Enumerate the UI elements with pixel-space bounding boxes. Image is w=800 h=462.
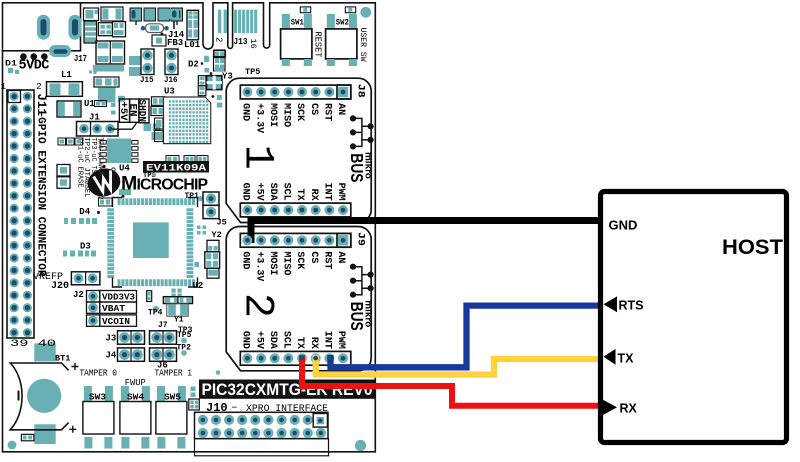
svg-text:TP5: TP5	[245, 67, 260, 77]
svg-text:AN: AN	[335, 103, 346, 115]
connector small left of Y3	[198, 76, 206, 86]
switch SW2 user	[345, 7, 355, 13]
small parts bottom left	[21, 434, 34, 441]
svg-text:J13: J13	[234, 37, 248, 47]
svg-text:16: 16	[248, 39, 258, 49]
svg-text:CS: CS	[308, 251, 319, 263]
battery holder BT1	[34, 343, 55, 361]
jumper J15	[141, 49, 154, 75]
svg-text:RX: RX	[620, 402, 638, 416]
mounting hole bottom right	[355, 440, 366, 451]
barrel jack connector J17	[3, 3, 81, 51]
wire RX (red)	[302, 355, 603, 406]
pin RX with arrow	[603, 400, 618, 416]
svg-text:SW2: SW2	[336, 18, 349, 27]
mounting hole top right	[360, 7, 371, 18]
header J9 top row	[240, 233, 350, 247]
svg-text:J3: J3	[106, 334, 117, 344]
header bottom row socket 1	[240, 203, 350, 217]
svg-text:PWM: PWM	[335, 331, 346, 349]
supply select VDD3V3 VBAT VCOIN	[87, 291, 100, 303]
svg-text:GND: GND	[609, 218, 638, 233]
svg-text:BUS: BUS	[347, 153, 367, 182]
svg-text:INT: INT	[322, 183, 333, 201]
svg-text:VDD3V3: VDD3V3	[102, 292, 135, 303]
svg-text:D3: D3	[80, 242, 91, 252]
svg-text:HOST: HOST	[722, 235, 783, 259]
HOST box	[601, 192, 787, 443]
oscillator	[146, 24, 164, 33]
svg-text:J8: J8	[355, 84, 366, 98]
power section components top	[84, 8, 99, 21]
connector J14	[166, 9, 179, 19]
5VDC marking	[20, 53, 27, 60]
board outline with routed slots	[3, 3, 376, 452]
inductor L01	[187, 10, 199, 40]
svg-text:2: 2	[234, 293, 282, 318]
svg-text:L01: L01	[184, 40, 201, 50]
svg-text:D4: D4	[79, 207, 90, 217]
svg-text:GND: GND	[240, 331, 251, 349]
pin TX with arrow	[604, 349, 616, 365]
svg-text:GND: GND	[240, 103, 251, 121]
switch SW3	[84, 386, 92, 402]
svg-text:PWM: PWM	[335, 183, 346, 201]
microcontroller U2 QFP	[107, 198, 195, 286]
svg-text:J15: J15	[140, 75, 154, 85]
svg-text:SCK: SCK	[294, 103, 305, 121]
svg-text:TX: TX	[294, 337, 305, 349]
svg-text:MISO: MISO	[281, 251, 292, 275]
svg-text:SCL: SCL	[281, 331, 292, 349]
svg-text:5VDC: 5VDC	[19, 58, 50, 73]
svg-text:J9: J9	[355, 232, 366, 246]
testpoints TP4 J7 Y1 TP3 cluster	[147, 291, 152, 302]
svg-text:J20: J20	[51, 281, 69, 292]
connector J11 GPIO extension	[7, 90, 34, 338]
svg-text:PIC32CXMTG-EK REV0: PIC32CXMTG-EK REV0	[202, 380, 373, 399]
mikroBUS logo socket 1	[353, 118, 371, 146]
svg-text:RX: RX	[308, 189, 319, 201]
svg-text:BT1: BT1	[55, 354, 70, 364]
small parts left of banner	[191, 387, 196, 392]
svg-text:+3.3V: +3.3V	[253, 103, 264, 133]
svg-text:Y2: Y2	[212, 230, 222, 240]
Microchip logo meatball	[84, 165, 123, 200]
svg-text:USER SW: USER SW	[358, 28, 368, 63]
wire RTS (blue)	[331, 306, 604, 368]
svg-text:–GPIO EXTENSION CONNECTOR: –GPIO EXTENSION CONNECTOR	[34, 111, 46, 277]
svg-text:SDA: SDA	[267, 183, 278, 201]
svg-text:RST: RST	[322, 251, 333, 269]
svg-text:TX: TX	[618, 352, 635, 366]
svg-text:INT: INT	[322, 331, 333, 349]
svg-text:U3: U3	[164, 87, 175, 97]
svg-text:SW1: SW1	[291, 18, 304, 27]
svg-text:+3.3V: +3.3V	[253, 251, 264, 281]
svg-text:J5: J5	[217, 218, 227, 228]
header J8 top row	[240, 85, 350, 99]
svg-text:MOSI: MOSI	[267, 103, 278, 127]
wire TX (yellow)	[316, 355, 603, 375]
wire GND (black)	[251, 221, 600, 244]
svg-text:GND: GND	[240, 251, 251, 269]
svg-text:+5V: +5V	[253, 331, 264, 349]
svg-text:SDA: SDA	[267, 331, 278, 349]
svg-text:D2: D2	[188, 60, 199, 70]
svg-text:CS: CS	[308, 103, 319, 115]
jumpers +5V EN SHDN	[119, 99, 129, 122]
svg-text:TX: TX	[294, 189, 305, 201]
small caps row left of U4	[58, 138, 66, 145]
svg-text:U2: U2	[193, 281, 204, 291]
svg-text:GND: GND	[240, 183, 251, 201]
ferrite FB3	[152, 35, 166, 46]
svg-text:J2: J2	[73, 290, 84, 300]
svg-text:1: 1	[1, 81, 7, 92]
svg-text:L1: L1	[61, 70, 72, 80]
mikroBUS socket 2 outline	[226, 227, 371, 371]
svg-text:Y1: Y1	[174, 316, 184, 325]
connector J10	[195, 412, 329, 438]
caps above EV box	[166, 156, 179, 163]
svg-text:VCOIN: VCOIN	[102, 316, 130, 327]
svg-text:J4: J4	[106, 351, 117, 361]
svg-text:J7: J7	[158, 321, 168, 330]
svg-text:U1: U1	[84, 99, 95, 109]
mikroBUS logo socket 2	[353, 267, 371, 295]
capacitor row C	[130, 8, 142, 21]
small caps near U1	[95, 101, 107, 107]
svg-text:RTS: RTS	[619, 299, 644, 313]
svg-text:RX: RX	[308, 337, 319, 349]
switch SW5	[157, 386, 165, 402]
small part under J13	[214, 50, 225, 58]
capacitor C below L1	[57, 101, 81, 117]
svg-text:SCK: SCK	[294, 251, 305, 269]
svg-text:MISO: MISO	[281, 103, 292, 127]
connector fingers J13	[218, 10, 221, 33]
jumper J16	[165, 49, 178, 75]
capacitor pair C	[96, 41, 125, 64]
svg-text:VBAT: VBAT	[102, 303, 125, 314]
SOIC U4	[107, 139, 131, 164]
svg-text:D1: D1	[5, 59, 17, 69]
svg-text:MOSI: MOSI	[267, 251, 278, 275]
svg-text:+5V: +5V	[253, 183, 264, 201]
cap below logo	[99, 198, 113, 206]
jumper J2	[71, 272, 100, 285]
pin dots over wires	[242, 235, 252, 245]
svg-text:TP4: TP4	[148, 309, 163, 318]
svg-text:RESET: RESET	[313, 32, 323, 59]
switch SW4	[121, 386, 129, 402]
svg-text:SHDN: SHDN	[136, 100, 147, 123]
svg-text:2: 2	[214, 37, 224, 42]
header bottom row socket 2	[240, 351, 350, 365]
svg-text:TAMPER 0: TAMPER 0	[80, 368, 118, 379]
svg-text:1: 1	[234, 145, 282, 170]
regulator U1 area	[94, 77, 119, 87]
mikroBUS socket 1 outline	[226, 78, 371, 222]
switch SW1 reset	[300, 7, 310, 13]
board name EV11K09A	[143, 161, 209, 173]
svg-text:+5V: +5V	[117, 102, 128, 121]
svg-text:TP1: TP1	[185, 192, 200, 201]
svg-text:39 40: 39 40	[10, 338, 56, 350]
svg-text:BUS: BUS	[347, 302, 367, 331]
svg-text:FB3: FB3	[167, 38, 183, 48]
svg-text:Y3: Y3	[222, 72, 233, 82]
svg-text:RST: RST	[322, 103, 333, 121]
pin RTS with arrow	[604, 296, 618, 312]
svg-text:SCL: SCL	[281, 183, 292, 201]
board name banner PIC32CXMTG-EK REV0	[199, 380, 375, 399]
svg-text:AN: AN	[335, 251, 346, 263]
svg-text:2: 2	[36, 81, 42, 92]
svg-text:J17: J17	[74, 54, 87, 64]
svg-text:TAMPER 1: TAMPER 1	[155, 368, 193, 379]
svg-text:J16: J16	[164, 75, 178, 85]
